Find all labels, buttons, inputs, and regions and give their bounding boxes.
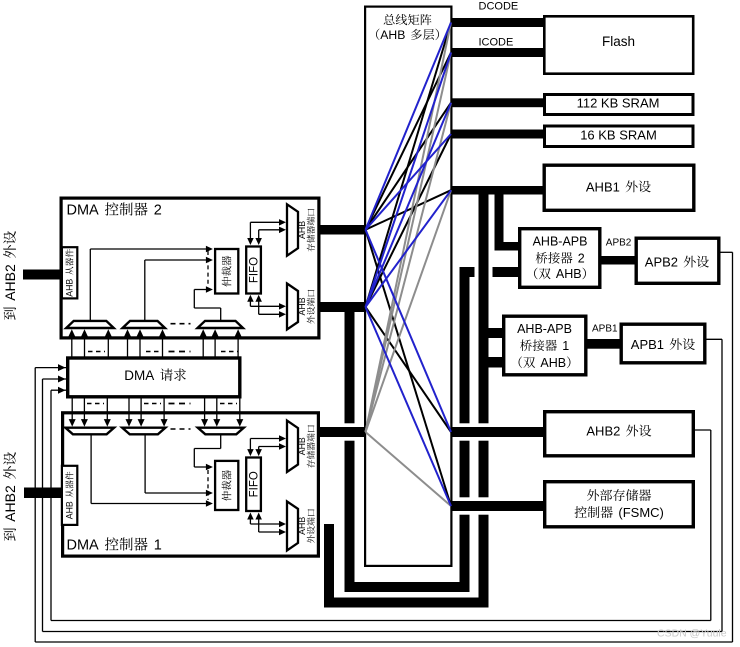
wire DMA1 peripheral wrap vertical (324, 524, 334, 608)
wire FIFO to memory port lower (DMA2) (258, 230, 260, 240)
svg-text:Flash: Flash (602, 34, 635, 49)
wire mux2 to arbiter (DMA1) (144, 434, 146, 494)
box AHB slave port (DMA2) (62, 247, 77, 298)
svg-text:AHB: AHB (297, 297, 307, 315)
box arbiter (DMA2) (215, 249, 238, 294)
wire AHB1 system bus vertical V1 (479, 190, 489, 603)
wire DMA2 wrap bottom bus (345, 582, 470, 592)
box DMA request (68, 358, 240, 397)
mux trapezoid 1 (DMA1) (65, 428, 114, 435)
wires requests into mux 1 (DMA2) (71, 336, 73, 357)
box 16KB SRAM (545, 126, 694, 147)
wires requests into mux 1 (DMA1) (71, 398, 73, 420)
svg-text:AHB1: AHB1 (586, 179, 620, 194)
label AHB slave (DMA2) (65, 249, 75, 297)
mux trapezoid 3 (DMA2) (198, 321, 244, 328)
bus bridge2 lower tap from V0 (broken at V1) (460, 267, 475, 277)
svg-text:AHB: AHB (380, 28, 405, 42)
bus DMA2 memory port to matrix M1 (318, 225, 366, 235)
svg-text:APB1: APB1 (631, 337, 664, 352)
wire FIFO to peripheral port upper (DMA1) (249, 517, 251, 524)
svg-text:112 KB SRAM: 112 KB SRAM (577, 96, 660, 111)
bus APB2 (601, 256, 637, 265)
bus DMA2 peripheral port to matrix M2 (318, 302, 366, 312)
wire crossing break DMA1 bus over DMA2 wrap (338, 423, 361, 440)
box 112KB SRAM (545, 95, 694, 115)
label to-AHB2 peripherals (lower) (2, 452, 18, 541)
box DMA controller 1 (63, 413, 319, 556)
svg-text:AHB: AHB (540, 356, 566, 370)
box APB2 peripherals (636, 238, 719, 283)
wires requests into mux 2 (DMA2) (127, 336, 129, 357)
label bridge1 line3 (519, 356, 523, 368)
wire crossing break FSMC bus (455, 497, 545, 514)
svg-text:AHB2: AHB2 (2, 485, 18, 522)
box arbiter (DMA1) (215, 461, 238, 510)
label AHB memory port (DMA2) (297, 209, 315, 252)
bus bridge2 upper tap from V2 (495, 242, 520, 251)
svg-text:APB2: APB2 (606, 237, 632, 248)
svg-text:ICODE: ICODE (479, 37, 514, 49)
box AHB2 peripherals (545, 412, 694, 456)
label to-AHB2 peripherals (upper) (2, 231, 18, 320)
wire FIFO to memory port lower (DMA1) (258, 447, 260, 452)
wire FIFO to peripheral port lower (DMA2) (258, 300, 260, 315)
box AHB-APB bridge2 (520, 229, 600, 288)
bus matrix box (AHB multilayer) (365, 7, 451, 566)
label bridge2 line3 (534, 268, 538, 280)
port trapezoid AHB peripheral (DMA2) (287, 284, 298, 330)
wires ellipsis dashes gap request-DMA1 (87, 403, 104, 405)
label FIFO (DMA1) (249, 471, 261, 497)
box FIFO (DMA1) (246, 458, 261, 512)
label arbiter (DMA1) (222, 470, 232, 501)
wire AHB1 system bus vertical V2 (495, 190, 504, 251)
wire mux2 to arbiter (DMA2) (144, 260, 146, 322)
wire crossing break AHB2 bus (455, 423, 545, 440)
label arbiter (DMA2) (222, 256, 232, 287)
bus AHB1 (452, 186, 546, 195)
mux trapezoid 1 (DMA2) (66, 321, 114, 328)
svg-text:AHB: AHB (556, 267, 582, 281)
label FSMC line2 (575, 506, 587, 518)
label FIFO (DMA2) (249, 257, 261, 283)
wire request loop from APB1 peripherals (43, 378, 67, 380)
svg-text:APB2: APB2 (645, 255, 678, 270)
box AHB-APB bridge1 (504, 316, 586, 375)
svg-text:(FSMC): (FSMC) (618, 505, 664, 520)
wire mux1 to arbiter (DMA2) (89, 249, 91, 322)
svg-text:AHB-APB: AHB-APB (517, 322, 572, 336)
svg-text:2: 2 (154, 203, 162, 219)
box FSMC controller (545, 482, 694, 527)
wire FIFO to memory port upper (DMA1) (249, 439, 251, 452)
svg-text:AHB: AHB (65, 501, 75, 519)
box APB1 peripherals (621, 324, 705, 363)
box AHB slave port (DMA1) (62, 466, 77, 525)
bus bridge1 upper tap from V1 (479, 328, 504, 338)
label FSMC line1 (587, 489, 599, 501)
mux trapezoid 3 (DMA1) (198, 428, 244, 435)
bus SRAM16 (452, 130, 546, 139)
wires ellipsis dashes gap DMA2-request (88, 351, 105, 353)
svg-text:2: 2 (578, 252, 585, 266)
svg-text:FIFO: FIFO (249, 257, 261, 283)
svg-text:AHB2: AHB2 (2, 264, 18, 301)
mux trapezoid 2 (DMA1) (122, 428, 165, 435)
wire DMA1 wrap bottom bus (324, 598, 489, 608)
svg-text:DMA: DMA (124, 368, 154, 383)
wires requests into mux 3 (DMA2) (202, 336, 204, 357)
svg-text:FIFO: FIFO (249, 471, 261, 497)
wire mux3 to arbiter (DMA1) (220, 434, 222, 449)
svg-text:CSDN @Yuule: CSDN @Yuule (657, 628, 727, 640)
label bus matrix line2 (376, 29, 379, 40)
svg-text:AHB-APB: AHB-APB (533, 235, 588, 249)
wire request loop from AHB2 peripherals (51, 389, 66, 391)
label AHB memory port (DMA1) (297, 425, 315, 468)
wire mux3 to arbiter (DMA2) (220, 308, 222, 322)
bus DMA1 memory port to matrix M3 (318, 427, 366, 437)
label AHB peripheral port (DMA1) (297, 509, 315, 543)
wire DMA2 peripheral wrap vertical (345, 307, 355, 592)
wire bridge2 feed vertical V0 (460, 267, 470, 592)
svg-text:APB1: APB1 (592, 324, 618, 335)
svg-text:DMA: DMA (67, 203, 100, 219)
bus FSMC (452, 501, 546, 511)
bus AHB2 (452, 427, 546, 437)
wire request loop from APB2 peripherals (35, 367, 66, 369)
wire channels ellipsis dashed (DMA2) (207, 251, 209, 287)
svg-text:DMA: DMA (67, 538, 100, 554)
box AHB1 peripherals (544, 165, 694, 210)
wires requests into mux 3 (DMA1) (204, 398, 206, 420)
wire FIFO to memory port upper (DMA2) (249, 222, 251, 240)
label bridge2 line2 (536, 252, 548, 264)
bus SRAM112 (452, 98, 546, 107)
wire ellipsis between mux2 and mux3 (DMA1) (171, 428, 191, 430)
svg-text:16 KB SRAM: 16 KB SRAM (580, 128, 657, 143)
port trapezoid AHB memory (DMA2) (287, 204, 298, 255)
svg-text:AHB: AHB (297, 221, 307, 239)
wire FIFO to peripheral port lower (DMA1) (258, 517, 260, 532)
svg-text:1: 1 (562, 339, 569, 353)
wire FIFO to peripheral port upper (DMA2) (249, 300, 251, 307)
port trapezoid AHB peripheral (DMA1) (287, 501, 298, 550)
box DMA controller 2 (61, 198, 319, 338)
label bridge1 line2 (520, 339, 532, 351)
svg-text:AHB: AHB (297, 437, 307, 455)
label AHB slave (DMA1) (65, 472, 75, 520)
wires requests into mux 2 (DMA1) (128, 398, 130, 420)
box Flash (544, 16, 693, 73)
label bus matrix line1 (384, 14, 395, 25)
svg-text:AHB: AHB (65, 279, 75, 297)
bus APB1 (587, 339, 622, 349)
mux trapezoid 2 (DMA2) (123, 321, 166, 328)
wire channels ellipsis dashed (DMA1) (207, 470, 209, 500)
bus DCODE (452, 18, 546, 27)
port trapezoid AHB memory (DMA1) (287, 421, 298, 472)
svg-text:AHB: AHB (297, 517, 307, 535)
box FIFO (DMA2) (246, 247, 261, 294)
bus ICODE (452, 48, 546, 57)
bus to-AHB2 stub into DMA2 slave port (23, 270, 63, 280)
wires matrix interconnect diagonals (366, 53, 452, 230)
bus to-AHB2 stub into DMA1 slave port (24, 488, 63, 499)
bus bridge1 lower tap from V1 (479, 357, 504, 368)
svg-text:AHB2: AHB2 (586, 424, 620, 439)
wire mux1 to arbiter (DMA1) (90, 434, 92, 504)
svg-text:DCODE: DCODE (479, 1, 519, 13)
svg-text:1: 1 (154, 538, 162, 554)
wire ellipsis between mux2 and mux3 (DMA2) (171, 323, 191, 325)
label AHB peripheral port (DMA2) (297, 290, 315, 324)
